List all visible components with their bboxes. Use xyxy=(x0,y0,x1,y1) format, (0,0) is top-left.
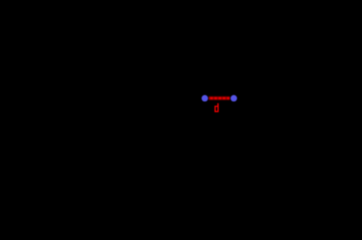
wire: distance line base (dim red) xyxy=(209,96,230,99)
node B: right charge xyxy=(231,95,238,102)
node A: left charge xyxy=(202,95,238,102)
label d xyxy=(215,103,219,112)
wire: distance line dashes (bright red) xyxy=(210,97,229,99)
